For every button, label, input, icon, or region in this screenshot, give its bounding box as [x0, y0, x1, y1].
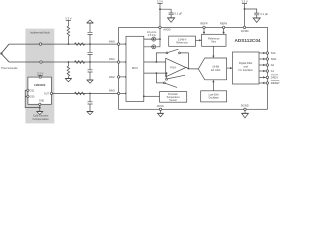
pin REFN [222, 26, 224, 28]
isothermal block shaded region [25, 29, 54, 124]
wire AVSS to ground [160, 111, 162, 114]
svg-text:3.3 V: 3.3 V [37, 71, 43, 75]
wire AIN2 to MUX [120, 76, 126, 78]
arrowhead REFN into reference mux [222, 32, 224, 34]
capacitor differential between leads [88, 44, 93, 62]
wire MUX to PGA input bottom [144, 72, 166, 74]
resistor bias pull-down [67, 62, 70, 78]
svg-text:ADS112C04: ADS112C04 [234, 38, 260, 43]
adc block pentagon [198, 58, 226, 80]
resistor series positive lead [75, 43, 85, 46]
svg-text:GS0: GS0 [30, 96, 35, 99]
wire oscillator to ADC [212, 81, 214, 91]
ground below LM94022 [37, 111, 43, 114]
resistor series temp-sensor lead [75, 92, 85, 95]
ground below pull-down resistor [65, 78, 71, 81]
node junction IDAC bus [159, 38, 161, 40]
ground below temp cap [87, 111, 93, 114]
svg-text:MUX: MUX [132, 66, 138, 70]
svg-text:RESET: RESET [271, 81, 280, 85]
arrowhead reference into ADC [212, 56, 214, 58]
pin AIN1 [117, 61, 119, 63]
precision temperature sensor block [160, 92, 187, 103]
mux block [126, 36, 144, 101]
switch temp sensor tap [156, 72, 178, 87]
thermocouple [0, 44, 9, 62]
capacitor positive lead to ground [88, 23, 93, 44]
node AIN1 at MUX [125, 61, 127, 63]
svg-text:DVDD: DVDD [241, 29, 249, 33]
svg-text:AIN3: AIN3 [109, 89, 115, 93]
arrowhead into reference mux [199, 39, 201, 41]
svg-text:Digital Filter: Digital Filter [239, 61, 253, 65]
wire AIN0 to MUX [120, 43, 126, 45]
node junction cap to positive lead [89, 43, 91, 45]
node junction PGA output [188, 68, 190, 70]
svg-text:0.1 µF: 0.1 µF [260, 12, 268, 16]
ground below DGND [241, 113, 248, 118]
node junction temp cap [89, 93, 91, 95]
wire REFN to reference mux [223, 29, 225, 34]
wire REFP to reference mux [203, 29, 205, 34]
wire GND pin down [39, 105, 41, 111]
arrowhead REFP into reference mux [203, 32, 205, 34]
node AIN0 at MUX [125, 43, 127, 45]
supply 3.3V for bias resistor [65, 16, 71, 20]
pin AIN0 [117, 43, 119, 45]
low drift oscillator block [201, 91, 227, 102]
terminal node negative lead [40, 61, 42, 63]
wire thermocouple positive lead [9, 43, 118, 45]
reference block 2.048V [169, 36, 196, 46]
svg-text:PGA: PGA [170, 66, 176, 70]
svg-text:SCL: SCL [271, 51, 277, 55]
wire reference mux to ADC [212, 46, 214, 57]
wire PGA output to ADC [186, 68, 198, 69]
wire MUX to PGA input top [144, 61, 166, 63]
svg-text:0.1 µF: 0.1 µF [175, 11, 183, 15]
pin AVDD [159, 26, 161, 28]
svg-text:AIN1: AIN1 [109, 57, 115, 61]
svg-text:REFN: REFN [220, 22, 227, 26]
svg-text:SDA: SDA [271, 57, 277, 61]
chip ADS112C04 outline [119, 27, 268, 109]
ground below DVDD cap [253, 18, 261, 23]
svg-text:GS1: GS1 [30, 89, 35, 92]
ground below negative-lead cap [87, 80, 93, 83]
node AIN2 at MUX [125, 76, 127, 78]
pin SCL [259, 51, 277, 55]
wire AIN3 to MUX [120, 92, 126, 94]
terminal node positive lead [39, 43, 41, 45]
pin REFP [203, 26, 205, 28]
svg-text:Isothermal block: Isothermal block [30, 30, 50, 34]
reference mux block [202, 34, 226, 46]
svg-text:Sensor: Sensor [169, 99, 177, 102]
node junction diff cap to negative lead [89, 61, 91, 63]
pin AIN3 [117, 92, 119, 94]
svg-text:I²C Interface: I²C Interface [239, 68, 254, 72]
current source IDAC1 [144, 37, 160, 41]
svg-text:3.3 V: 3.3 V [65, 16, 71, 20]
svg-text:REFP: REFP [200, 22, 207, 26]
arrowhead ADC into digital block [230, 67, 232, 69]
svg-text:1.5 mA: 1.5 mA [148, 34, 156, 37]
capacitor DVDD bypass [254, 13, 259, 18]
svg-text:AVSS: AVSS [157, 104, 164, 108]
svg-text:A1: A1 [271, 69, 275, 73]
resistor series negative lead [75, 61, 85, 64]
pin DGND [244, 108, 246, 110]
pin SDA [259, 57, 277, 61]
pin DVDD [243, 26, 245, 28]
digital filter and I2C interface block [233, 52, 260, 84]
node junction DVDD branch [244, 8, 246, 10]
svg-text:GND: GND [39, 99, 45, 102]
svg-text:Thermocouple: Thermocouple [1, 66, 18, 70]
ground below AVSS [157, 113, 163, 117]
svg-text:3.3 V: 3.3 V [241, 0, 247, 4]
supply 3.3V for LM94022 [37, 71, 43, 77]
switch PGA bypass top [156, 49, 189, 68]
svg-text:AIN0: AIN0 [109, 39, 115, 43]
pin GND LM94022 [39, 103, 41, 105]
svg-text:and: and [244, 64, 249, 68]
temperature sensor U2 LM94022 [28, 77, 52, 104]
pin A1 [259, 69, 275, 73]
op-amp PGA [166, 58, 186, 77]
node junction AVDD branch [159, 8, 161, 10]
svg-text:Oscillator: Oscillator [208, 97, 219, 100]
svg-text:Compensation: Compensation [33, 118, 50, 121]
wire reference to reference mux [196, 39, 201, 41]
capacitor AVDD bypass [169, 13, 174, 18]
capacitor negative lead to ground [88, 62, 93, 80]
svg-text:16-Bit: 16-Bit [212, 65, 219, 69]
pin VDD LM94022 [39, 76, 41, 78]
capacitor temp lead to ground [88, 93, 93, 111]
svg-text:DRDY: DRDY [271, 76, 279, 80]
node junction pull-up to lead [68, 43, 70, 45]
wire LM94022 OUT to AIN3 [53, 92, 119, 94]
pin DRDY [259, 75, 279, 80]
wire DGND to ground [244, 111, 246, 114]
wire GS pins to ground bus [25, 90, 40, 107]
svg-text:3.3 V: 3.3 V [157, 0, 163, 4]
wire AVDD branch to bypass cap [160, 9, 171, 13]
wire AIN1 to MUX [120, 61, 126, 63]
wire ADC to digital filter [227, 67, 232, 69]
svg-text:Reference: Reference [176, 41, 188, 44]
wire DVDD branch to bypass cap [245, 9, 257, 13]
ground flipped above positive-lead cap [87, 20, 93, 23]
svg-text:ΔΣ ADC: ΔΣ ADC [211, 68, 221, 72]
node AIN3 at MUX [125, 93, 127, 95]
pin AVSS [159, 108, 161, 110]
current source IDAC2 [144, 45, 160, 49]
node junction GS bus to GND wire [39, 107, 41, 109]
svg-text:LM94022: LM94022 [34, 83, 46, 87]
pin AIN2 [117, 76, 119, 78]
pin OUT LM94022 [50, 92, 52, 94]
ground below AVDD cap [167, 18, 175, 23]
wire thermocouple negative lead [9, 61, 118, 63]
svg-text:OUT: OUT [44, 92, 50, 95]
node temp sensor wire at MUX [143, 95, 145, 97]
resistor bias pull-up [67, 20, 70, 44]
wire temp sensor to MUX [144, 95, 160, 97]
svg-text:AVDD: AVDD [163, 27, 170, 31]
supply 3.3V DVDD [241, 0, 247, 27]
pin A0 [259, 63, 275, 67]
svg-text:DGND: DGND [241, 104, 249, 108]
pin GS0 LM94022 [27, 95, 29, 97]
svg-text:A0: A0 [271, 63, 275, 67]
pin GS1 LM94022 [27, 89, 29, 91]
svg-text:Mux: Mux [211, 41, 216, 44]
wire AVDD to IDAC bus [159, 29, 161, 47]
svg-text:AIN2: AIN2 [109, 75, 115, 79]
arrowhead oscillator into ADC [212, 80, 214, 82]
supply 3.3V AVDD [157, 0, 163, 27]
pin RESET [259, 81, 280, 86]
switch PGA lower bypass [166, 72, 185, 80]
node junction pull-down to lead [68, 61, 70, 63]
